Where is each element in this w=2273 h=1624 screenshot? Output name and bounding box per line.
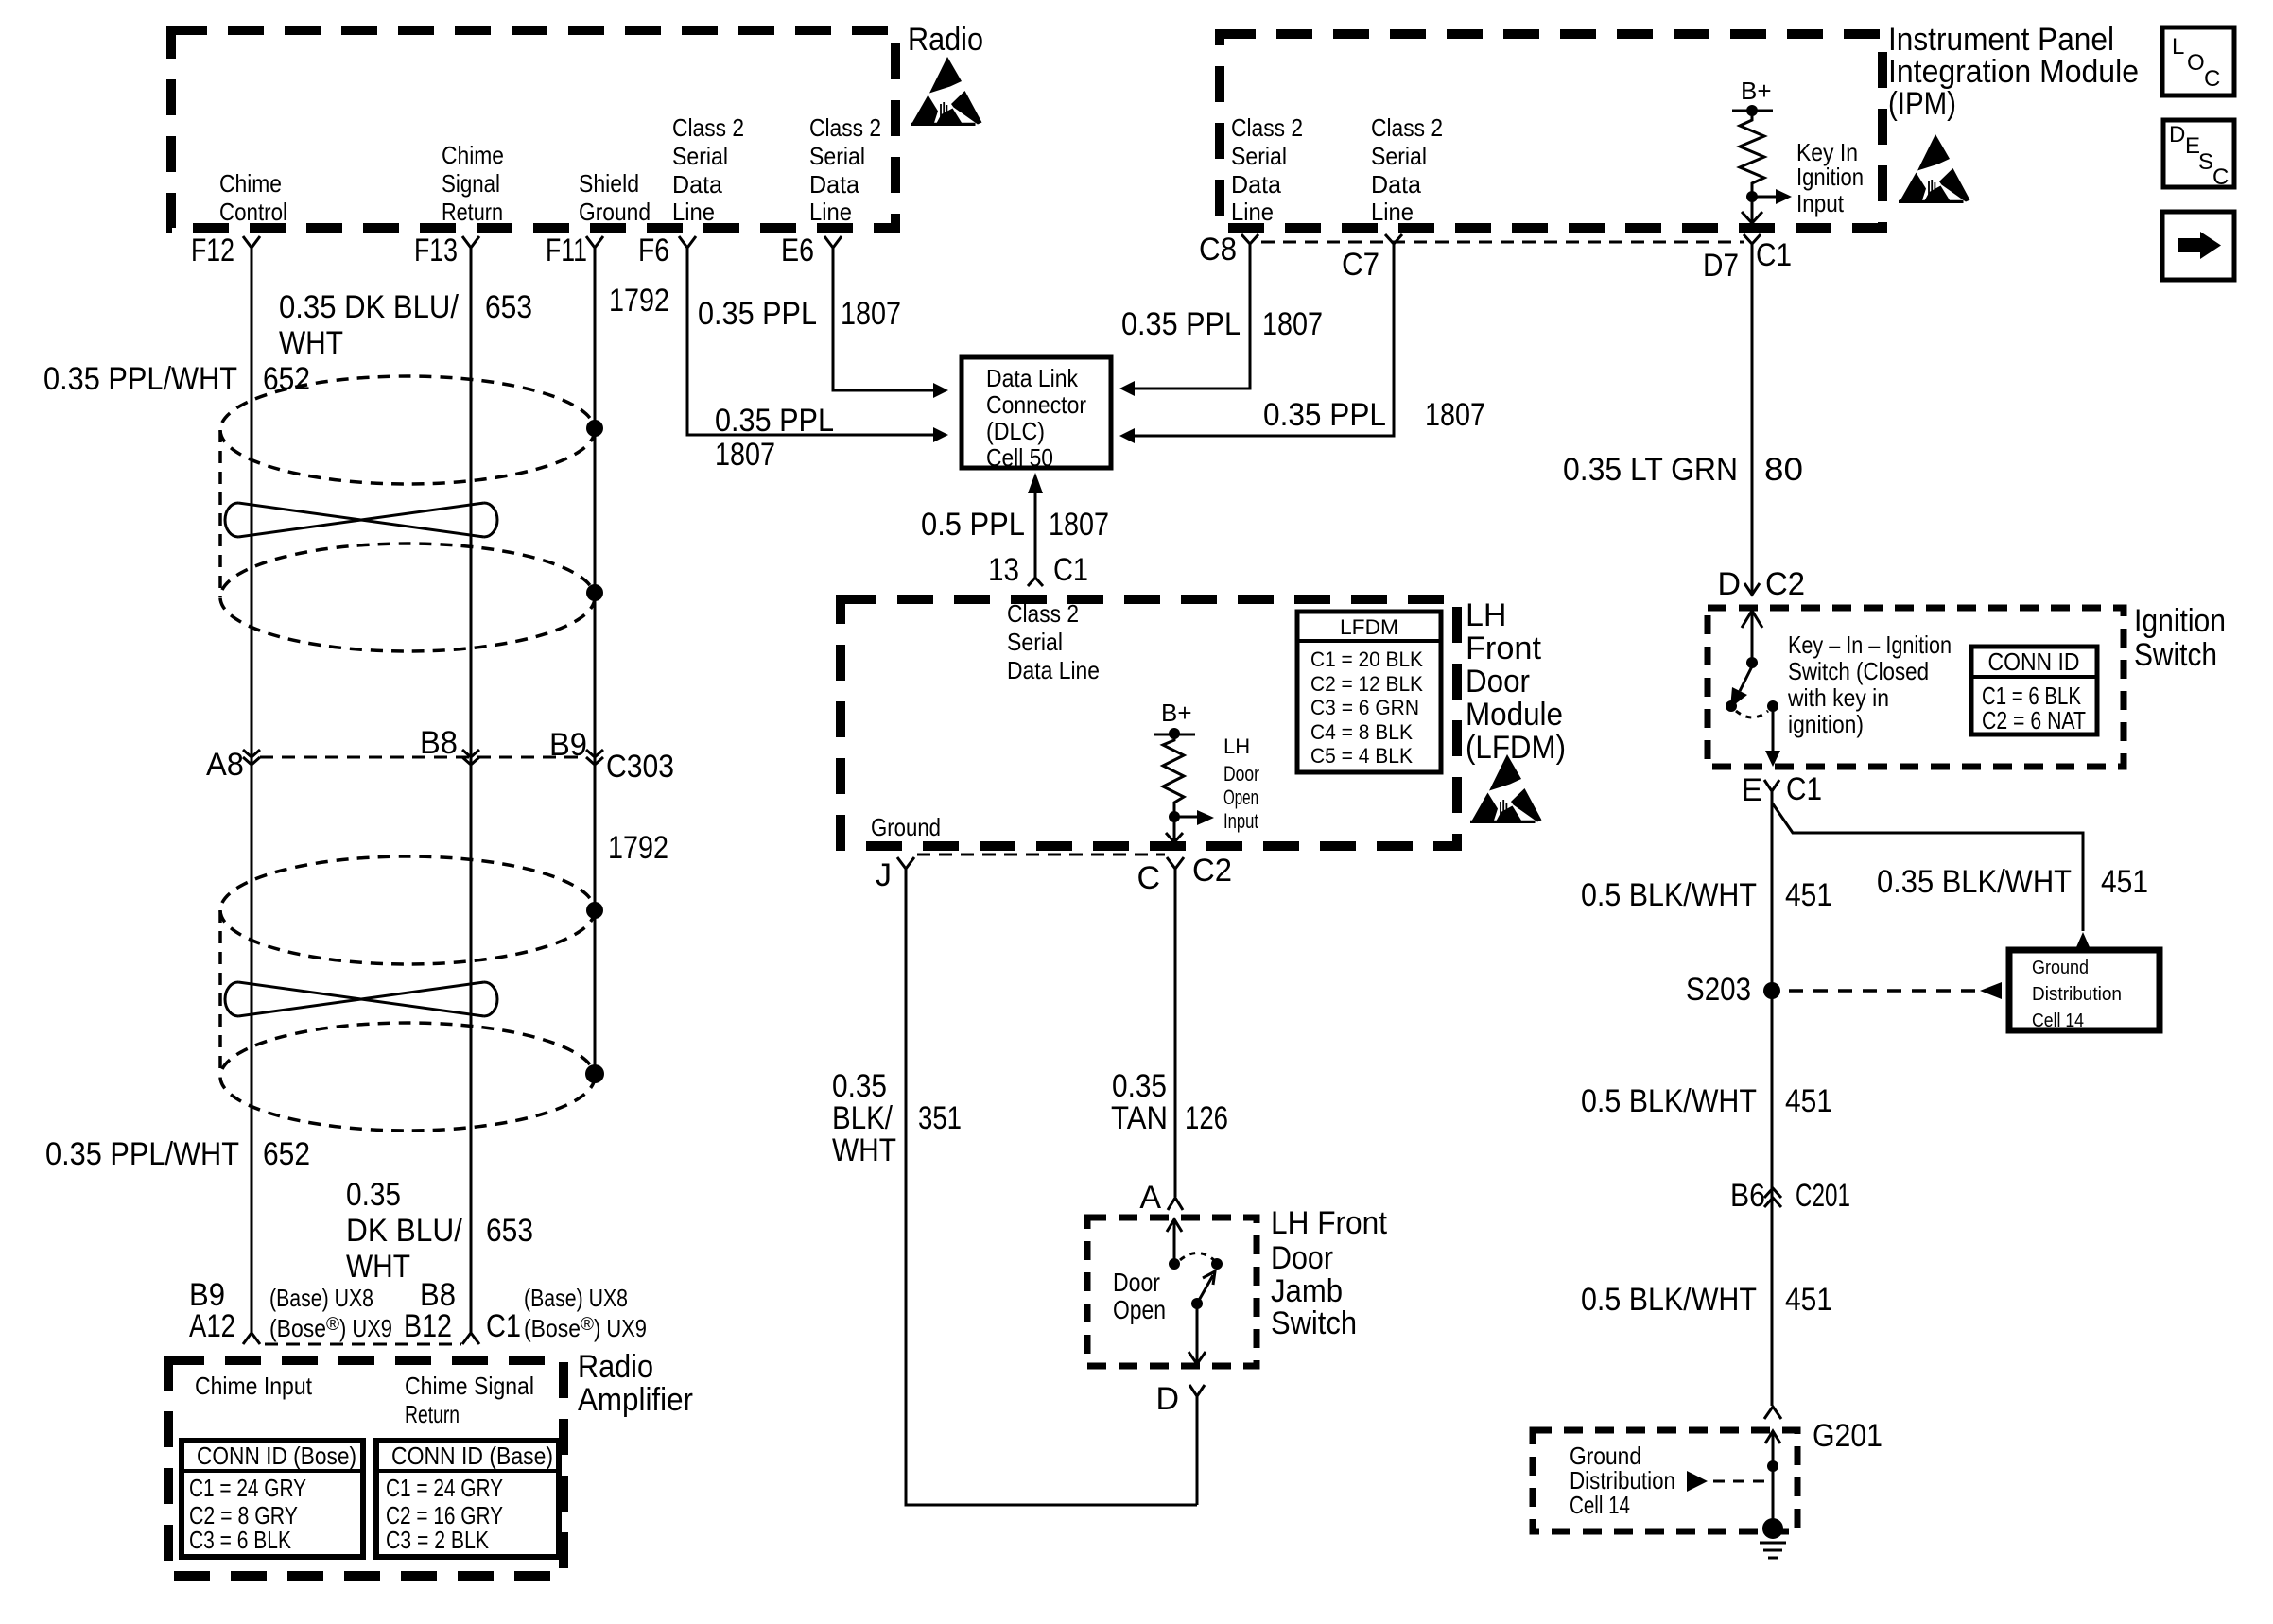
svg-text:0.35 PPL: 0.35 PPL <box>1121 306 1241 342</box>
svg-text:652: 652 <box>263 361 310 397</box>
svg-text:C3 = 6 BLK: C3 = 6 BLK <box>189 1526 292 1554</box>
svg-text:A8: A8 <box>206 747 244 783</box>
svg-text:C: C <box>2212 164 2229 190</box>
svg-text:WHT: WHT <box>279 325 343 361</box>
svg-text:with key in: with key in <box>1787 683 1889 712</box>
svg-text:Data: Data <box>1371 170 1422 199</box>
svg-text:(LFDM): (LFDM) <box>1466 730 1566 766</box>
svg-text:F6: F6 <box>638 233 669 268</box>
svg-text:B6: B6 <box>1730 1178 1765 1214</box>
svg-text:Switch (Closed: Switch (Closed <box>1788 657 1929 685</box>
svg-text:C1 = 20 BLK: C1 = 20 BLK <box>1310 648 1423 671</box>
svg-text:TAN: TAN <box>1111 1100 1168 1136</box>
svg-text:0.35: 0.35 <box>346 1177 401 1213</box>
svg-text:0.35 LT GRN: 0.35 LT GRN <box>1563 452 1738 488</box>
svg-text:(IPM): (IPM) <box>1888 86 1956 122</box>
svg-text:Shield: Shield <box>579 169 639 198</box>
svg-text:0.5 BLK/WHT: 0.5 BLK/WHT <box>1581 877 1757 913</box>
svg-text:0.35: 0.35 <box>1112 1068 1167 1104</box>
svg-text:0.35 PPL: 0.35 PPL <box>715 403 834 439</box>
svg-text:Input: Input <box>1796 189 1845 217</box>
svg-text:C2: C2 <box>1192 853 1232 889</box>
svg-text:Chime Signal: Chime Signal <box>405 1372 534 1400</box>
svg-text:Integration Module: Integration Module <box>1888 54 2139 90</box>
svg-text:S: S <box>2198 149 2213 175</box>
svg-text:LFDM: LFDM <box>1340 615 1398 639</box>
svg-text:C1 = 24 GRY: C1 = 24 GRY <box>386 1474 503 1502</box>
svg-text:653: 653 <box>485 289 532 325</box>
svg-text:F12: F12 <box>191 233 234 268</box>
svg-text:0.35 BLK/WHT: 0.35 BLK/WHT <box>1877 864 2072 900</box>
svg-text:Cell 50: Cell 50 <box>986 443 1053 472</box>
svg-text:C201: C201 <box>1796 1178 1850 1214</box>
svg-text:Ground: Ground <box>2032 958 2089 978</box>
svg-text:0.35 DK BLU/: 0.35 DK BLU/ <box>279 289 460 325</box>
svg-text:C1: C1 <box>1756 237 1792 273</box>
svg-text:Amplifier: Amplifier <box>578 1382 693 1418</box>
svg-text:Line: Line <box>1231 198 1274 226</box>
svg-text:126: 126 <box>1185 1100 1228 1136</box>
svg-text:Chime: Chime <box>219 169 282 198</box>
svg-text:1807: 1807 <box>1425 397 1485 433</box>
svg-text:Serial: Serial <box>1007 628 1063 656</box>
svg-text:451: 451 <box>2101 864 2148 900</box>
svg-text:Data Line: Data Line <box>1007 656 1100 684</box>
svg-text:0.5 PPL: 0.5 PPL <box>921 507 1025 543</box>
svg-text:C2 = 6 NAT: C2 = 6 NAT <box>1982 706 2086 734</box>
svg-text:451: 451 <box>1785 1282 1832 1318</box>
svg-text:0.35 PPL: 0.35 PPL <box>1263 397 1386 433</box>
svg-text:Chime Input: Chime Input <box>195 1372 313 1400</box>
svg-text:CONN ID (Bose): CONN ID (Bose) <box>197 1442 356 1470</box>
svg-text:Jamb: Jamb <box>1271 1273 1343 1309</box>
svg-text:0.35: 0.35 <box>832 1068 887 1104</box>
svg-text:1792: 1792 <box>608 830 668 866</box>
svg-text:1807: 1807 <box>715 437 775 473</box>
svg-text:Instrument Panel: Instrument Panel <box>1888 22 2114 58</box>
svg-text:Cell 14: Cell 14 <box>2032 1011 2084 1031</box>
svg-text:1807: 1807 <box>1262 306 1323 342</box>
svg-text:C: C <box>1136 860 1160 896</box>
svg-text:Switch: Switch <box>1271 1305 1357 1341</box>
svg-text:Data: Data <box>672 170 723 199</box>
svg-text:Data: Data <box>809 170 860 199</box>
svg-text:C3 = 6 GRN: C3 = 6 GRN <box>1310 696 1419 719</box>
svg-text:A12: A12 <box>189 1308 235 1344</box>
svg-text:351: 351 <box>918 1100 962 1136</box>
svg-text:C1: C1 <box>1786 771 1822 807</box>
svg-text:Open: Open <box>1223 786 1258 809</box>
svg-text:C1: C1 <box>1053 552 1088 588</box>
svg-text:C3 = 2 BLK: C3 = 2 BLK <box>386 1526 490 1554</box>
svg-text:C2 = 12 BLK: C2 = 12 BLK <box>1310 672 1423 696</box>
svg-text:CONN ID (Base): CONN ID (Base) <box>391 1442 553 1470</box>
svg-text:G201: G201 <box>1813 1418 1883 1454</box>
svg-text:Line: Line <box>809 198 852 226</box>
svg-text:F13: F13 <box>414 233 458 268</box>
svg-text:Serial: Serial <box>809 142 865 170</box>
svg-text:Serial: Serial <box>672 142 728 170</box>
svg-text:Data: Data <box>1231 170 1282 199</box>
svg-text:A: A <box>1139 1180 1161 1216</box>
svg-text:B+: B+ <box>1161 699 1192 727</box>
svg-text:1792: 1792 <box>609 283 669 319</box>
svg-text:13: 13 <box>988 552 1019 588</box>
svg-text:Ground: Ground <box>871 813 941 841</box>
svg-text:CONN ID: CONN ID <box>1988 648 2080 676</box>
svg-text:ignition): ignition) <box>1788 710 1864 738</box>
svg-text:Door: Door <box>1466 664 1530 700</box>
svg-text:C: C <box>2204 66 2220 92</box>
svg-text:S203: S203 <box>1686 972 1751 1008</box>
svg-text:O: O <box>2187 50 2205 76</box>
svg-text:WHT: WHT <box>346 1249 410 1285</box>
svg-text:Door: Door <box>1271 1240 1333 1276</box>
svg-text:D7: D7 <box>1703 248 1739 284</box>
svg-text:Module: Module <box>1466 697 1563 733</box>
svg-text:(Base) UX8: (Base) UX8 <box>524 1284 628 1312</box>
svg-text:Return: Return <box>405 1400 460 1428</box>
svg-text:(Base) UX8: (Base) UX8 <box>269 1284 373 1312</box>
svg-text:C4 = 8 BLK: C4 = 8 BLK <box>1310 720 1413 744</box>
svg-text:Chime: Chime <box>442 141 504 169</box>
svg-text:80: 80 <box>1764 452 1803 488</box>
svg-text:Open: Open <box>1113 1295 1166 1324</box>
svg-text:LH Front: LH Front <box>1271 1205 1388 1241</box>
svg-text:D: D <box>2169 122 2185 147</box>
svg-text:B12: B12 <box>404 1308 452 1344</box>
svg-text:B8: B8 <box>420 725 458 761</box>
svg-text:(DLC): (DLC) <box>986 417 1045 445</box>
svg-text:C5 = 4 BLK: C5 = 4 BLK <box>1310 744 1413 768</box>
svg-text:Switch: Switch <box>2134 637 2217 673</box>
svg-text:C303: C303 <box>606 749 674 785</box>
svg-text:C1 = 24 GRY: C1 = 24 GRY <box>189 1474 306 1502</box>
svg-text:LH: LH <box>1223 734 1250 758</box>
svg-text:Door: Door <box>1223 762 1259 786</box>
svg-text:0.35 PPL/WHT: 0.35 PPL/WHT <box>43 361 237 397</box>
svg-text:Return: Return <box>442 198 503 226</box>
svg-text:F11: F11 <box>546 233 587 268</box>
svg-text:B9: B9 <box>549 727 587 763</box>
svg-text:Ignition: Ignition <box>2134 603 2226 639</box>
svg-text:451: 451 <box>1785 877 1832 913</box>
svg-text:L: L <box>2172 34 2184 60</box>
svg-text:C8: C8 <box>1199 232 1237 268</box>
svg-text:Radio: Radio <box>578 1349 653 1385</box>
svg-text:Line: Line <box>672 198 715 226</box>
svg-text:C7: C7 <box>1342 247 1379 283</box>
svg-text:DK BLU/: DK BLU/ <box>346 1213 463 1249</box>
svg-text:Radio: Radio <box>908 22 983 58</box>
svg-text:WHT: WHT <box>832 1132 896 1168</box>
svg-text:Door: Door <box>1113 1268 1160 1297</box>
svg-text:Class 2: Class 2 <box>809 113 881 142</box>
svg-text:653: 653 <box>486 1213 533 1249</box>
svg-text:Distribution: Distribution <box>2032 984 2122 1005</box>
svg-text:652: 652 <box>263 1136 310 1172</box>
svg-text:E: E <box>1741 772 1762 808</box>
svg-text:B+: B+ <box>1741 77 1772 105</box>
svg-text:Serial: Serial <box>1371 142 1427 170</box>
svg-text:Serial: Serial <box>1231 142 1287 170</box>
svg-text:Input: Input <box>1223 809 1258 833</box>
svg-text:Connector: Connector <box>986 390 1086 419</box>
svg-text:LH: LH <box>1466 597 1506 633</box>
svg-text:451: 451 <box>1785 1083 1832 1119</box>
svg-text:C1: C1 <box>486 1308 521 1344</box>
svg-text:Front: Front <box>1466 631 1542 666</box>
svg-text:BLK/: BLK/ <box>832 1100 893 1136</box>
svg-text:0.35 PPL/WHT: 0.35 PPL/WHT <box>45 1136 239 1172</box>
svg-text:Signal: Signal <box>442 169 500 198</box>
svg-text:Class 2: Class 2 <box>1007 599 1079 628</box>
svg-text:Data Link: Data Link <box>986 364 1079 392</box>
svg-text:Class 2: Class 2 <box>1371 113 1443 142</box>
svg-text:Key – In – Ignition: Key – In – Ignition <box>1788 631 1952 659</box>
svg-text:D: D <box>1155 1381 1179 1417</box>
svg-text:0.5 BLK/WHT: 0.5 BLK/WHT <box>1581 1282 1757 1318</box>
svg-text:Ignition: Ignition <box>1796 163 1864 191</box>
svg-text:Line: Line <box>1371 198 1414 226</box>
svg-text:D: D <box>1717 566 1741 602</box>
svg-text:Cell 14: Cell 14 <box>1570 1491 1630 1519</box>
svg-text:Ground: Ground <box>579 198 651 226</box>
svg-text:0.35 PPL: 0.35 PPL <box>698 296 817 332</box>
svg-text:1807: 1807 <box>1049 507 1109 543</box>
svg-text:Control: Control <box>219 198 287 226</box>
svg-text:1807: 1807 <box>841 296 901 332</box>
svg-text:0.5 BLK/WHT: 0.5 BLK/WHT <box>1581 1083 1757 1119</box>
svg-text:J: J <box>876 857 892 893</box>
svg-text:C2: C2 <box>1765 566 1805 602</box>
svg-text:Class 2: Class 2 <box>672 113 744 142</box>
svg-text:Class 2: Class 2 <box>1231 113 1303 142</box>
svg-text:E6: E6 <box>781 233 814 268</box>
